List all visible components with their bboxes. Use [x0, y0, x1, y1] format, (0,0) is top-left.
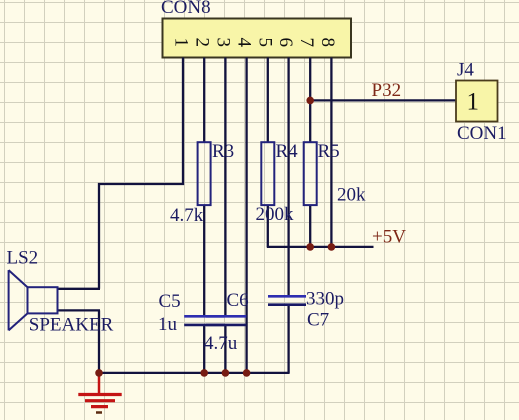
svg-text:C6: C6 [227, 290, 249, 311]
svg-text:6: 6 [275, 38, 296, 48]
node junction P32/pin7 [306, 97, 314, 105]
wire R3 bottom to C5 top [203, 205, 205, 316]
svg-text:3: 3 [213, 38, 234, 48]
node junction speaker/ground [95, 369, 103, 377]
wire C7 bottom to ground rail corner [287, 305, 289, 373]
wire pin6 to C7 top [287, 58, 289, 297]
wire speaker bottom lead [58, 309, 101, 311]
node junction pin8/+5V [328, 243, 336, 251]
svg-text:4.7u: 4.7u [204, 333, 238, 354]
svg-text:R4: R4 [276, 141, 299, 162]
capacitor C6 top plate [206, 315, 246, 318]
svg-text:CON1: CON1 [457, 123, 507, 144]
wire pin8 to +5V rail [330, 58, 332, 247]
svg-text:8: 8 [317, 38, 338, 48]
ground symbol [78, 373, 121, 413]
wire +5V rail [267, 246, 374, 248]
svg-text:5: 5 [254, 38, 275, 48]
node junction pin4/ground [243, 369, 251, 377]
wire speaker bottom to ground [98, 310, 100, 373]
svg-text:P32: P32 [372, 80, 402, 101]
svg-text:200k: 200k [256, 204, 295, 225]
resistor R3 [198, 142, 211, 205]
wire speaker top lead [58, 288, 101, 290]
wire P32 net to J4 [310, 99, 456, 101]
wire C5 bottom to ground rail [203, 325, 205, 373]
svg-text:R5: R5 [318, 141, 340, 162]
svg-text:1: 1 [171, 38, 192, 48]
svg-text:20k: 20k [337, 185, 366, 206]
node junction C6/ground [222, 369, 230, 377]
capacitor C7 top plate [268, 295, 306, 298]
svg-text:+5V: +5V [372, 227, 406, 248]
svg-text:4: 4 [233, 38, 254, 48]
connector CON8 body [163, 19, 352, 58]
node junction C5/ground [200, 369, 208, 377]
capacitor C7 bottom plate [268, 303, 306, 306]
wire R4 bottom to +5V rail [267, 205, 269, 247]
capacitor C5 bottom plate [184, 324, 224, 327]
wire pin3 to C6 top [224, 58, 226, 317]
svg-text:C7: C7 [307, 310, 329, 331]
capacitor C6 bottom plate [206, 324, 246, 327]
svg-text:7: 7 [296, 38, 317, 48]
wire C6 bottom to ground rail [224, 325, 226, 373]
wire pin1 to speaker top [99, 58, 183, 289]
svg-text:SPEAKER: SPEAKER [29, 315, 114, 336]
svg-text:1u: 1u [158, 314, 178, 335]
svg-text:LS2: LS2 [7, 248, 39, 269]
wire ground rail [99, 372, 290, 374]
wire R5 bottom to +5V rail [309, 205, 311, 247]
wire pin4 to ground rail [245, 58, 247, 373]
resistor R4 [261, 142, 274, 205]
wire pin5 to R4 top [267, 58, 269, 143]
node junction R5/+5V [306, 243, 314, 251]
wire pin7 to R5 top [309, 58, 311, 143]
svg-text:4.7k: 4.7k [170, 205, 204, 226]
connector J4 body [456, 81, 498, 122]
svg-text:330p: 330p [306, 289, 344, 310]
wire pin2 to R3 top [203, 58, 205, 143]
svg-text:CON8: CON8 [161, 0, 211, 18]
capacitor C5 top plate [184, 315, 224, 318]
svg-text:1: 1 [467, 89, 480, 116]
svg-text:J4: J4 [457, 60, 474, 81]
svg-text:C5: C5 [159, 291, 181, 312]
svg-text:R3: R3 [212, 141, 234, 162]
speaker LS2 symbol [9, 270, 58, 330]
svg-text:2: 2 [192, 38, 213, 48]
resistor R5 [304, 142, 317, 205]
